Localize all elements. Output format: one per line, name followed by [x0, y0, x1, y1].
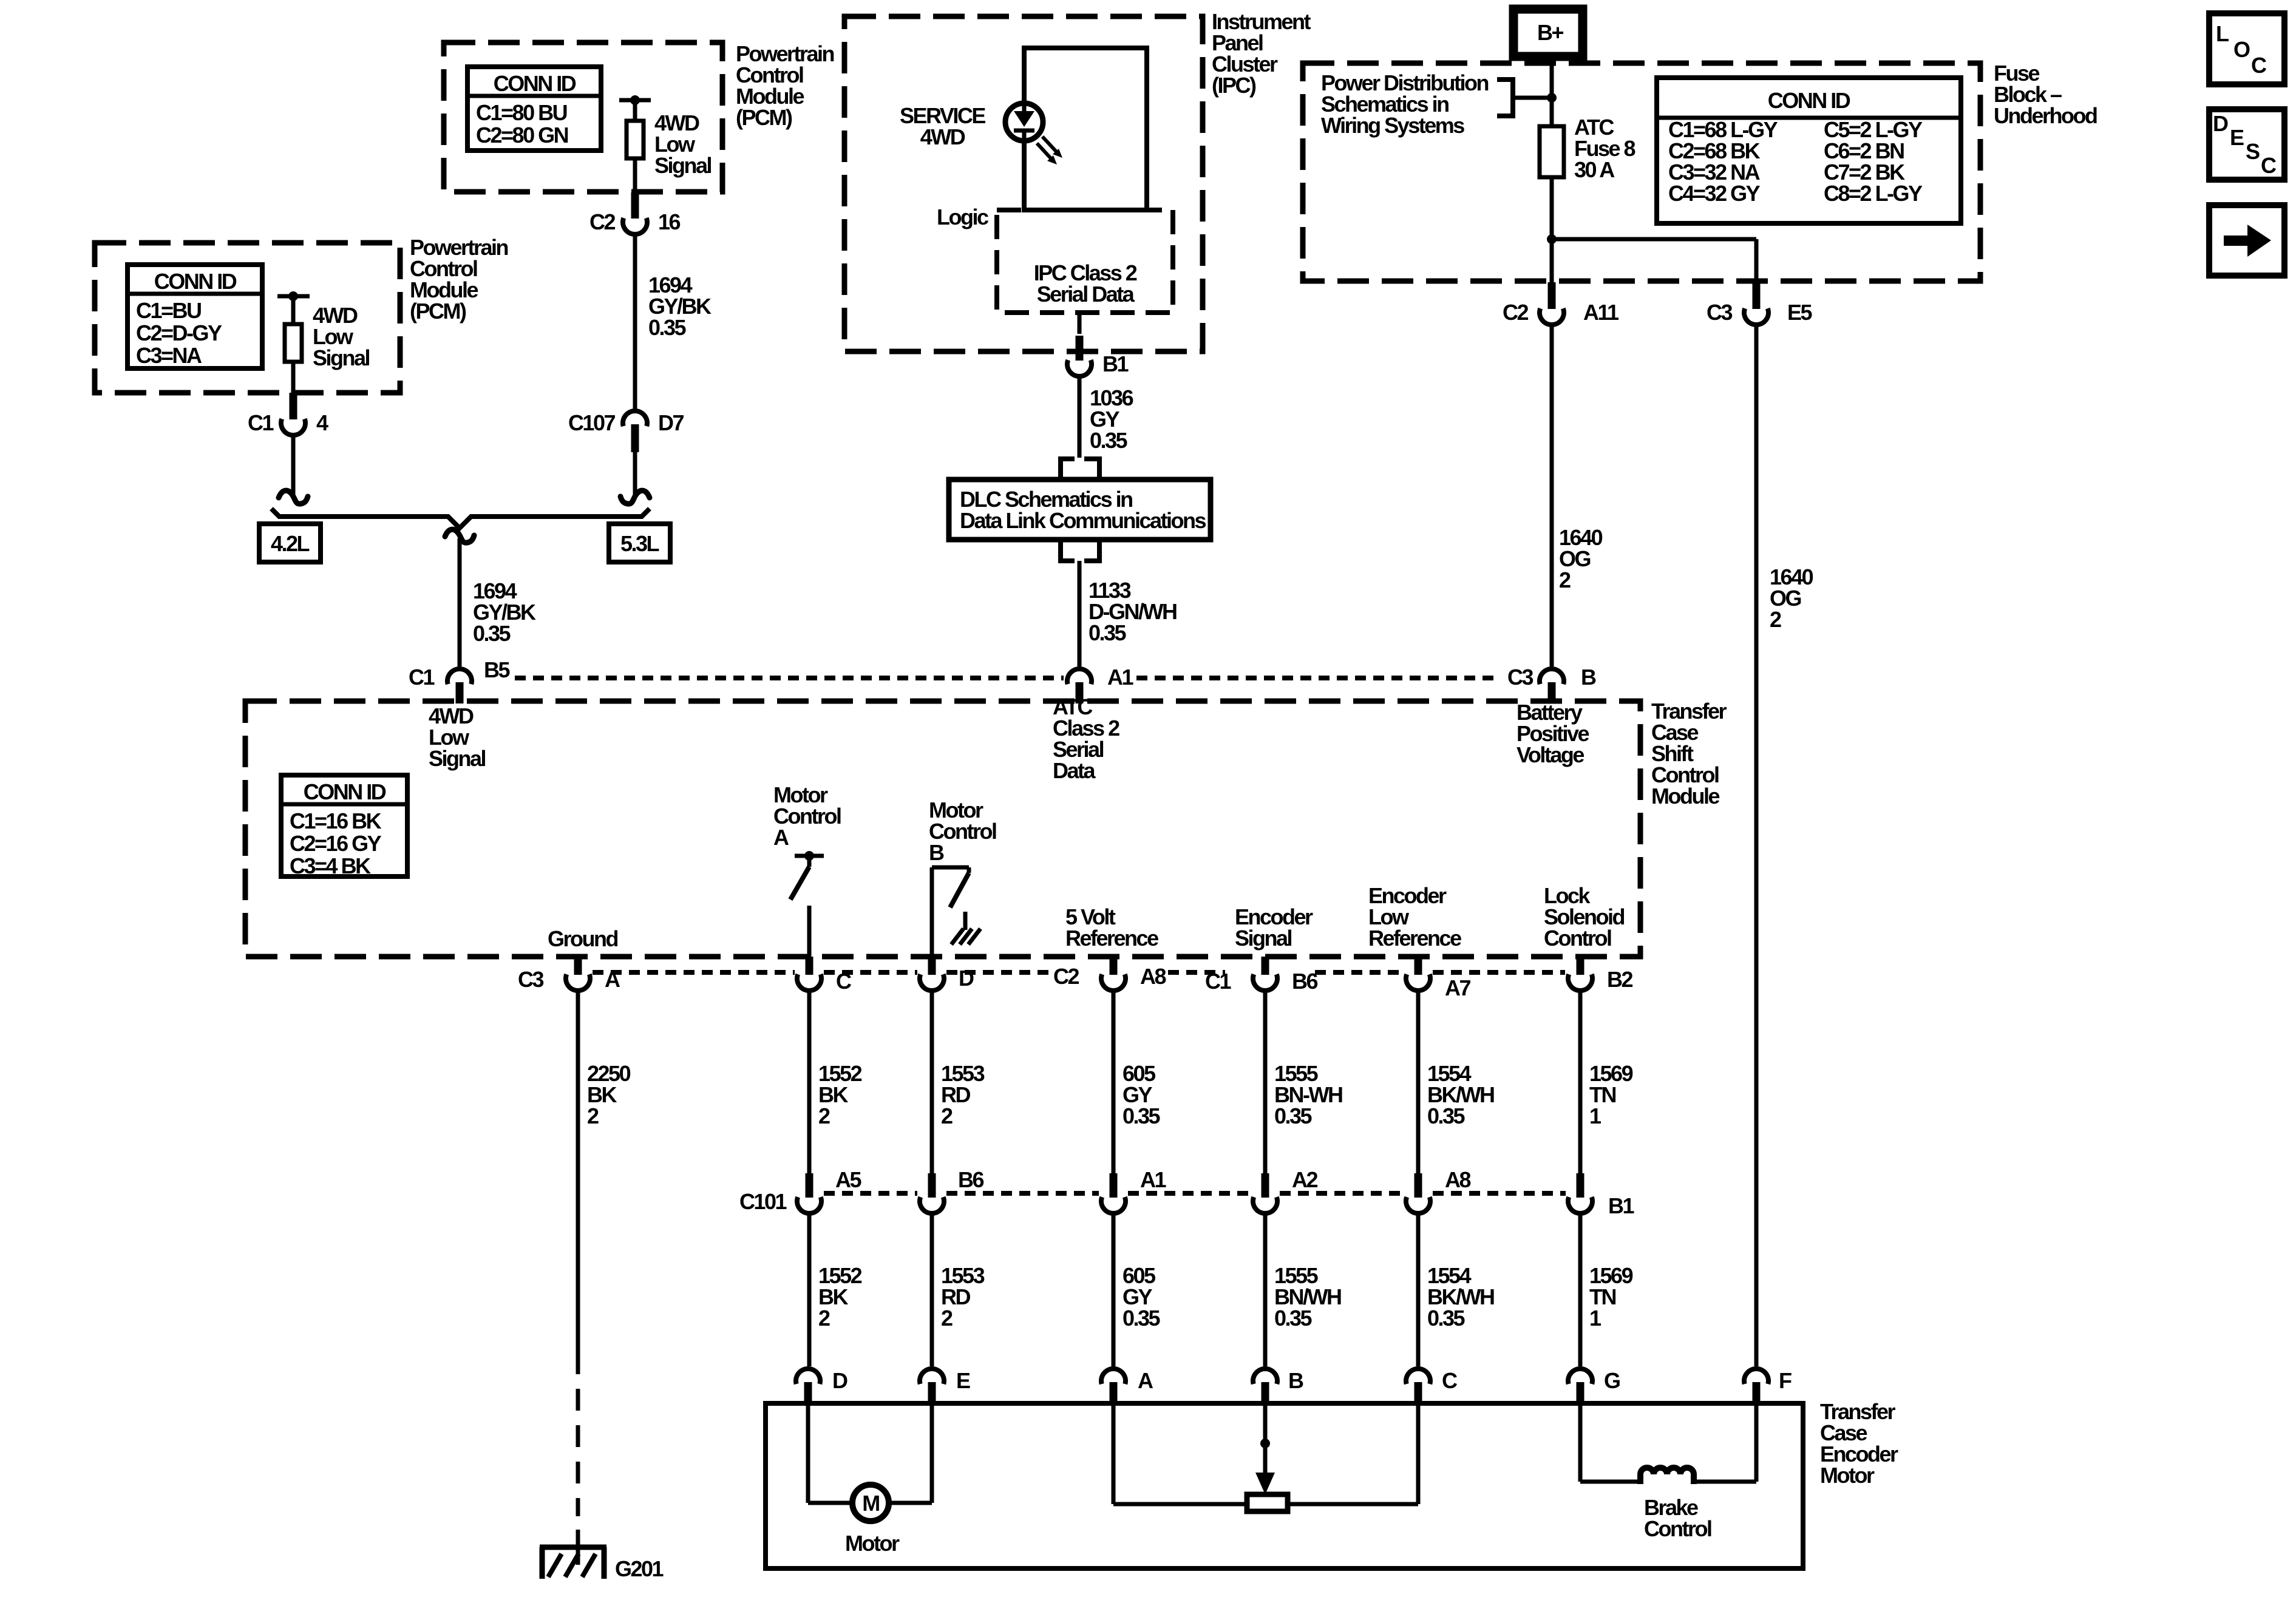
svg-text:Data Link Communications: Data Link Communications: [960, 508, 1206, 533]
wire 605 GY lower run: [1112, 1213, 1116, 1366]
svg-text:C2=D-GY: C2=D-GY: [136, 320, 222, 345]
svg-text:Wiring Systems: Wiring Systems: [1321, 113, 1464, 138]
svg-text:5.3L: 5.3L: [620, 531, 659, 556]
svg-text:Module: Module: [1651, 784, 1719, 808]
svg-text:30 A: 30 A: [1574, 157, 1615, 182]
svg-text:C: C: [2261, 153, 2277, 178]
svg-text:S: S: [2246, 139, 2260, 164]
connector pin B2 (Lock Solenoid Control): [1577, 957, 1584, 975]
connector C3 pin A (Ground): [574, 957, 582, 975]
svg-text:A2: A2: [1292, 1167, 1317, 1192]
svg-text:0.35: 0.35: [1274, 1103, 1313, 1128]
svg-text:0.35: 0.35: [1427, 1306, 1466, 1331]
svg-text:B: B: [1288, 1368, 1303, 1393]
junction dot at B+ wire: [1547, 93, 1557, 103]
bracket to power distribution: [1497, 80, 1513, 116]
svg-text:C: C: [2251, 53, 2267, 78]
connector pin G (encoder motor): [1568, 1369, 1592, 1384]
svg-text:C101: C101: [739, 1189, 787, 1214]
svg-text:CONN ID: CONN ID: [304, 779, 386, 804]
svg-text:C2: C2: [1503, 300, 1528, 325]
position sensor resistor: [1247, 1494, 1288, 1511]
svg-text:E5: E5: [1787, 300, 1813, 325]
connector pin D (encoder motor): [796, 1369, 820, 1384]
svg-text:A: A: [773, 825, 789, 850]
svg-text:0.35: 0.35: [1123, 1103, 1161, 1128]
svg-text:C2=80 GN: C2=80 GN: [476, 123, 568, 147]
svg-text:4: 4: [316, 410, 328, 435]
legend box arrow: [2209, 205, 2284, 276]
wire 2250 BK upper run: [576, 991, 580, 1352]
wire G to brake coil: [1578, 1403, 1583, 1482]
wire 1553 RD lower run: [930, 1213, 934, 1366]
svg-text:D7: D7: [658, 410, 684, 435]
connector C101 pin A1: [1110, 1173, 1118, 1198]
module box Instrument Panel Cluster IPC (dashed): [844, 16, 1203, 351]
connector face dotted line top: [515, 676, 1064, 680]
wire from C107-D7 down to merge: [633, 452, 637, 496]
connector pin E (encoder motor): [920, 1369, 944, 1384]
legend box LOC: [2209, 13, 2284, 84]
wire 1569 TN lower run: [1578, 1213, 1583, 1366]
wire coil to F: [1694, 1480, 1756, 1484]
svg-text:Signal: Signal: [429, 746, 486, 771]
svg-text:E: E: [956, 1368, 970, 1393]
svg-text:D: D: [832, 1368, 847, 1393]
wire 1640 OG battery feed: [1550, 326, 1554, 666]
svg-text:B6: B6: [1292, 969, 1317, 994]
connector pin B1: [1076, 336, 1084, 361]
svg-text:C3: C3: [1707, 300, 1732, 325]
svg-text:D: D: [2213, 111, 2228, 136]
svg-text:C8=2 L-GY: C8=2 L-GY: [1824, 181, 1923, 206]
svg-text:2: 2: [818, 1306, 830, 1331]
connector C101 pin A2: [1262, 1173, 1269, 1198]
svg-text:G201: G201: [615, 1556, 664, 1581]
connector C1 pin B5: [447, 669, 472, 684]
svg-text:E: E: [2230, 125, 2244, 150]
svg-text:C4=32 GY: C4=32 GY: [1668, 181, 1761, 206]
CONN ID table fuse block: [1657, 78, 1961, 223]
svg-text:C: C: [1442, 1368, 1458, 1393]
logic box IPC Class 2 Serial Data (dashed): [997, 210, 1173, 313]
engine option box 5.3L: [609, 524, 670, 562]
DLC box exit notch bottom: [1061, 540, 1075, 561]
svg-text:B1: B1: [1608, 1193, 1634, 1218]
reference box DLC Schematics in Data Link Communications: [949, 480, 1211, 540]
svg-text:Logic: Logic: [937, 205, 988, 229]
svg-text:A: A: [1138, 1368, 1153, 1393]
connector C3 pin E5: [1753, 282, 1761, 309]
svg-text:A8: A8: [1445, 1167, 1470, 1192]
svg-text:2: 2: [1559, 568, 1571, 592]
svg-text:C1: C1: [409, 665, 435, 690]
svg-text:Signal: Signal: [1235, 926, 1292, 951]
legend box DESC: [2209, 109, 2284, 180]
svg-text:Signal: Signal: [654, 153, 712, 178]
svg-text:CONN ID: CONN ID: [1768, 88, 1850, 113]
wire option hook center: [445, 529, 474, 543]
svg-text:4.2L: 4.2L: [271, 531, 310, 556]
connector pin B (encoder motor): [1253, 1369, 1277, 1384]
svg-text:0.35: 0.35: [473, 621, 511, 646]
svg-text:2: 2: [818, 1103, 830, 1128]
CONN ID table PCM left: [127, 265, 262, 368]
wire A to position sensor: [1112, 1403, 1116, 1504]
wire option bus with center tap: [271, 509, 650, 528]
chassis ground at Motor Control B: [963, 912, 968, 930]
svg-text:Reference: Reference: [1368, 926, 1461, 951]
svg-text:Motor: Motor: [1820, 1463, 1875, 1488]
wire 1555 BN-WH upper run: [1263, 991, 1268, 1173]
svg-text:Motor: Motor: [845, 1531, 900, 1556]
connector pin D (Motor Control B): [928, 957, 936, 975]
svg-text:O: O: [2233, 37, 2250, 62]
svg-text:Serial Data: Serial Data: [1037, 282, 1135, 307]
svg-text:B6: B6: [958, 1167, 983, 1192]
svg-text:Control: Control: [1544, 926, 1611, 951]
svg-text:(PCM): (PCM): [410, 299, 466, 324]
switch Motor Control B: [932, 866, 969, 870]
svg-text:Signal: Signal: [313, 345, 370, 370]
svg-text:B5: B5: [484, 657, 510, 682]
connector C2 pin A11: [1548, 282, 1556, 309]
svg-text:B1: B1: [1102, 351, 1129, 376]
module box Transfer Case Shift Control Module (dashed): [245, 701, 1640, 957]
connector pin A (encoder motor): [1101, 1369, 1126, 1384]
wire 1554 BK/WH lower run: [1416, 1213, 1421, 1366]
connector C107 pin D7: [623, 411, 647, 426]
inductor Brake Control coil: [1640, 1468, 1694, 1484]
wire 1553 RD upper run: [930, 991, 934, 1173]
svg-text:Voltage: Voltage: [1517, 742, 1584, 767]
wire B wiper with arrow: [1263, 1403, 1268, 1474]
connector pin F (encoder motor): [1744, 1369, 1768, 1384]
svg-text:A11: A11: [1583, 300, 1619, 325]
svg-text:A8: A8: [1140, 964, 1166, 989]
connector C101 pin B6: [928, 1173, 936, 1198]
svg-text:A5: A5: [835, 1167, 861, 1192]
svg-text:A7: A7: [1445, 975, 1470, 1000]
wire 1569 TN upper run: [1578, 991, 1583, 1173]
connector C1 pin B6 (Encoder Signal): [1262, 957, 1269, 975]
svg-text:Ground: Ground: [548, 926, 617, 951]
lamp circuit rectangle in IPC: [1024, 48, 1147, 210]
CONN ID table shift control module: [281, 775, 407, 876]
svg-text:C2=16 GY: C2=16 GY: [290, 831, 382, 856]
resistor 4WD Low Signal (PCM top): [619, 98, 651, 103]
svg-text:0.35: 0.35: [1090, 428, 1128, 453]
svg-text:C1=BU: C1=BU: [136, 298, 201, 323]
wire junction to E5 branch: [1552, 237, 1756, 242]
svg-text:A1: A1: [1140, 1167, 1166, 1192]
connector C2 pin 16: [631, 192, 639, 219]
indicator lamp SERVICE 4WD (LED): [1005, 103, 1043, 141]
connector pin A1: [1067, 669, 1092, 684]
svg-text:16: 16: [658, 209, 681, 234]
resistor 4WD Low Signal (PCM left): [277, 294, 310, 299]
wire B+ to fuse: [1550, 63, 1554, 126]
svg-text:Underhood: Underhood: [1994, 103, 2097, 128]
connector C101 pin A5: [806, 1173, 813, 1198]
svg-text:L: L: [2216, 21, 2229, 46]
svg-text:G: G: [1604, 1368, 1620, 1393]
wire 1552 BK lower run: [807, 1213, 812, 1366]
motor M circle: [852, 1485, 889, 1521]
svg-text:2: 2: [941, 1306, 953, 1331]
connector pin C (Motor Control A): [806, 957, 813, 975]
wire 1694 GY/BK upper segment: [633, 233, 637, 410]
switch Motor Control A: [795, 854, 824, 858]
wire D to motor: [806, 1403, 810, 1503]
svg-text:0.35: 0.35: [1089, 620, 1127, 645]
svg-text:Control: Control: [1644, 1516, 1711, 1541]
CONN ID table PCM top: [467, 67, 601, 151]
connector C101 pin A8: [1415, 1173, 1422, 1198]
connector C1 pin 4 (PCM left): [290, 393, 297, 419]
junction dot fuse output: [1547, 234, 1557, 244]
svg-text:C3: C3: [518, 967, 543, 992]
svg-text:CONN ID: CONN ID: [494, 71, 576, 96]
wire fuse to junction: [1550, 177, 1554, 239]
wire 2250 BK dashed lower run: [576, 1352, 580, 1516]
svg-text:0.35: 0.35: [648, 315, 687, 340]
wire sensor to C: [1288, 1502, 1418, 1507]
svg-text:C1=80 BU: C1=80 BU: [476, 100, 567, 125]
connector C3 pin B: [1540, 669, 1564, 684]
ground G201 symbol: [540, 1545, 606, 1550]
svg-text:A1: A1: [1107, 665, 1133, 690]
wire 1640 OG to encoder motor F: [1754, 326, 1759, 1366]
wire from logic box to B1: [1078, 313, 1082, 334]
wire 1036 GY: [1078, 376, 1082, 458]
svg-text:2: 2: [587, 1103, 599, 1128]
power feed box B+: [1513, 9, 1583, 56]
DLC box entry notch top: [1061, 459, 1075, 480]
svg-text:1: 1: [1589, 1103, 1601, 1128]
svg-text:C1=16 BK: C1=16 BK: [290, 808, 382, 833]
wire 1694 GY/BK lower segment: [458, 538, 462, 666]
svg-text:C3=4 BK: C3=4 BK: [290, 853, 371, 878]
fuse ATC Fuse 8 30 A: [1540, 126, 1564, 177]
connector C2 pin A8 (5 Volt Reference): [1110, 957, 1118, 975]
svg-text:CONN ID: CONN ID: [154, 269, 237, 294]
connector pin C (encoder motor): [1406, 1369, 1430, 1384]
engine option box 4.2L: [259, 524, 321, 562]
svg-text:F: F: [1779, 1368, 1792, 1393]
svg-text:0.35: 0.35: [1274, 1306, 1313, 1331]
wire 1554 BK/WH upper run: [1416, 991, 1421, 1173]
svg-text:2: 2: [941, 1103, 953, 1128]
svg-text:(IPC): (IPC): [1212, 73, 1256, 98]
svg-text:C2: C2: [589, 209, 615, 234]
module box Powertrain Control Module PCM (left, dashed): [95, 243, 400, 393]
svg-text:0.35: 0.35: [1427, 1103, 1466, 1128]
svg-text:C3: C3: [1507, 665, 1533, 690]
wire option hook right: [620, 490, 650, 504]
LED emission arrows: [1042, 137, 1058, 153]
svg-text:Data: Data: [1053, 758, 1096, 783]
svg-text:Reference: Reference: [1065, 926, 1158, 951]
svg-text:C3=NA: C3=NA: [136, 343, 202, 368]
svg-text:B: B: [929, 840, 944, 865]
svg-text:C2: C2: [1053, 964, 1079, 989]
wire 1133 D-GN/WH: [1078, 561, 1082, 666]
svg-text:C107: C107: [568, 410, 616, 435]
svg-text:D: D: [959, 966, 974, 991]
svg-text:M: M: [862, 1491, 879, 1516]
module box Powertrain Control Module PCM (top, dashed): [444, 42, 722, 192]
wire option hook left: [279, 490, 308, 504]
svg-text:1: 1: [1589, 1306, 1601, 1331]
component box Transfer Case Encoder Motor: [766, 1403, 1803, 1568]
svg-text:B+: B+: [1537, 20, 1563, 45]
wire 605 GY upper run: [1112, 991, 1116, 1173]
svg-text:C1: C1: [248, 410, 274, 435]
wire 1555 BN/WH lower run: [1263, 1213, 1268, 1366]
svg-text:(PCM): (PCM): [736, 105, 792, 130]
wire 1552 BK upper run: [807, 991, 812, 1173]
svg-text:B: B: [1581, 665, 1596, 690]
connector face dotted line module bottom: [593, 970, 795, 975]
svg-text:2: 2: [1770, 607, 1781, 632]
connector C101 pin B1: [1577, 1173, 1584, 1198]
connector face dotted line C101: [824, 1191, 917, 1196]
svg-text:B2: B2: [1607, 967, 1632, 992]
wire motor to E: [889, 1501, 932, 1505]
wire from C1-4 down to merge: [291, 434, 296, 496]
svg-text:4WD: 4WD: [920, 124, 965, 149]
svg-text:0.35: 0.35: [1123, 1306, 1161, 1331]
connector pin A7 (Encoder Low Reference): [1415, 957, 1422, 975]
module box Fuse Block - Underhood (dashed): [1303, 63, 1980, 281]
